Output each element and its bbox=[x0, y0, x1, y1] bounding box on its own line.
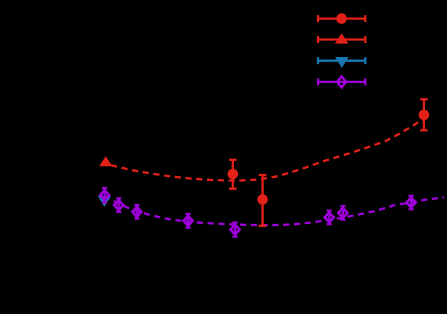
legend entry 1: red circle with error bar line bbox=[318, 15, 365, 22]
purple diamond 5 error bar bbox=[232, 223, 237, 237]
red data point 2 error bar bbox=[259, 175, 267, 226]
red data point 1 marker bbox=[228, 169, 239, 180]
red fit curve (dashed) bbox=[111, 119, 424, 181]
red data point 3 error bar bbox=[420, 99, 428, 130]
purple diamond 2 error bar bbox=[116, 198, 121, 212]
purple diamond 7 marker bbox=[338, 208, 347, 218]
purple diamond 3 marker bbox=[132, 207, 141, 217]
red data point 1 error bar bbox=[229, 160, 237, 189]
purple diamond 4 error bar bbox=[186, 214, 191, 228]
purple diamond 4 marker bbox=[184, 216, 193, 226]
purple fit curve (dashed) bbox=[105, 196, 445, 226]
purple diamond 7 error bar bbox=[340, 206, 345, 220]
blue triangle-down data point (behind first diamond) bbox=[98, 196, 111, 207]
red data point 2 marker bbox=[257, 194, 268, 205]
purple diamond 5 marker bbox=[231, 225, 240, 235]
red triangle data point bbox=[99, 156, 112, 166]
purple diamond 1 marker bbox=[100, 190, 109, 200]
purple diamond 6 marker bbox=[325, 213, 334, 223]
purple diamond 1 error bar bbox=[102, 188, 107, 202]
purple diamond 8 marker bbox=[407, 198, 416, 208]
purple diamond 3 error bar bbox=[134, 205, 139, 219]
purple diamond 8 error bar bbox=[409, 196, 414, 210]
purple diamond 2 marker bbox=[114, 200, 123, 210]
legend entry 4: purple open diamond with error bar line bbox=[318, 78, 365, 85]
legend entry 2: red triangle-up with error bar line bbox=[318, 36, 365, 43]
legend entry 3: blue triangle-down with error bar line bbox=[318, 57, 365, 64]
purple diamond 6 error bar bbox=[327, 211, 332, 225]
red data point 3 marker bbox=[419, 110, 430, 121]
